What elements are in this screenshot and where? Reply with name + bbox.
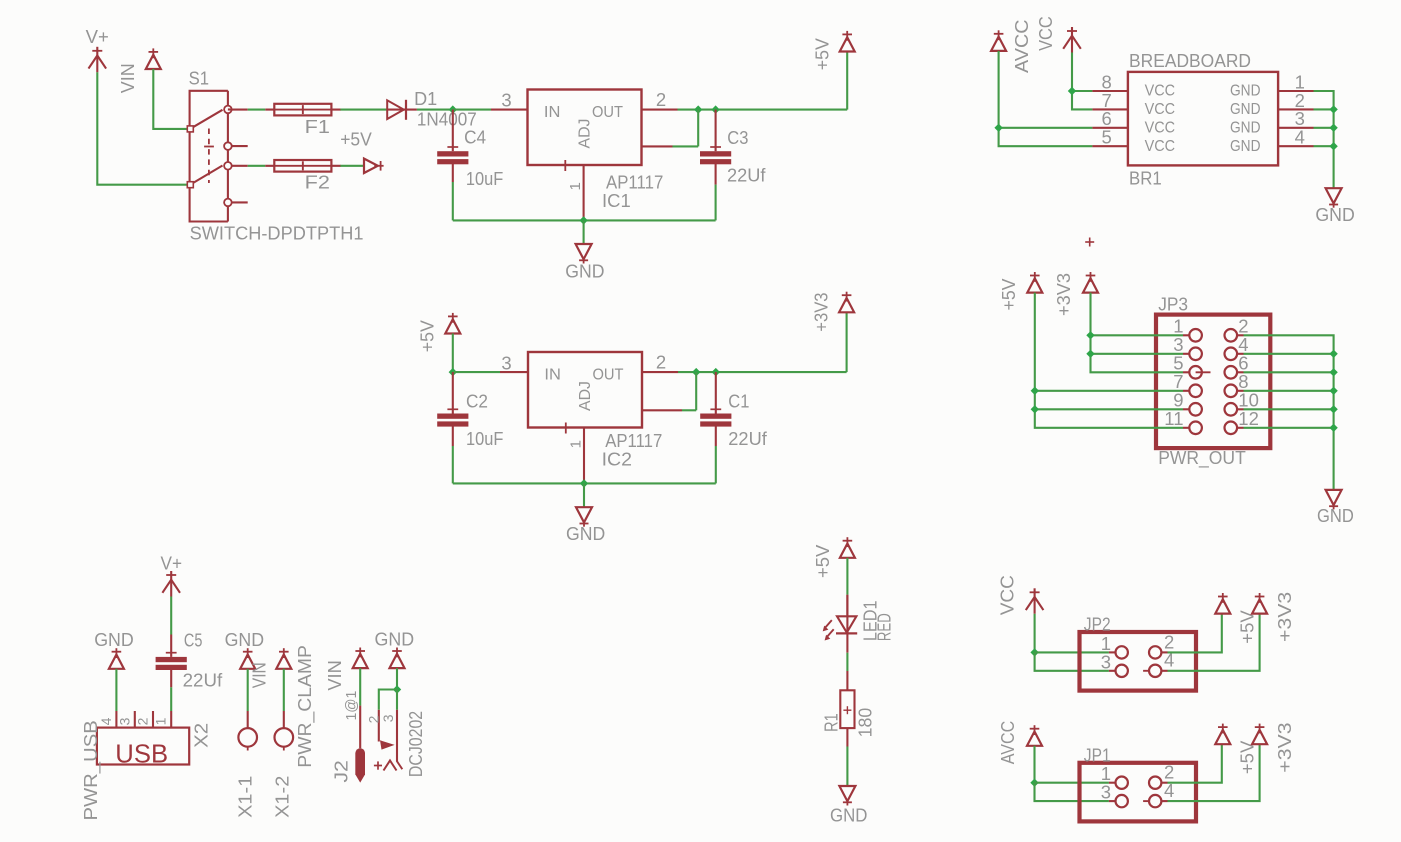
wire VCC to BR1 pins 8,7 — [1072, 53, 1092, 92]
svg-text:D1: D1 — [414, 89, 437, 109]
supply V+ arrow (USB) — [166, 574, 176, 576]
supply VIN arrow — [146, 55, 161, 69]
supply +5V arrow (switch output) — [364, 159, 378, 173]
BR1 pin 6 stub — [1092, 127, 1128, 129]
svg-text:11: 11 — [1164, 408, 1183, 429]
wire LED1 to R1 — [846, 634, 848, 653]
node junction JP3 gnd — [1329, 350, 1337, 358]
node junction JP3 gnd — [1329, 405, 1337, 413]
test pad X1-2 — [275, 728, 294, 747]
connector J2 center pin — [355, 748, 365, 782]
svg-text:ADJ: ADJ — [577, 119, 594, 149]
ground symbol LED/R1 — [839, 786, 855, 801]
svg-text:C4: C4 — [464, 127, 486, 147]
svg-text:VCC: VCC — [1145, 101, 1176, 118]
svg-text:DCJ0202: DCJ0202 — [406, 711, 426, 777]
svg-text:RED: RED — [875, 613, 895, 641]
svg-text:V+: V+ — [161, 554, 183, 574]
svg-text:1: 1 — [153, 717, 169, 725]
J2 sleeve contact arrow — [380, 740, 395, 749]
wire switch to fuse F2 — [232, 165, 248, 167]
supply +5V arrow (top right of IC1) — [840, 37, 855, 51]
svg-text:3: 3 — [380, 714, 396, 722]
capacitor C5 — [170, 635, 172, 657]
supply +5V arrow (JP3) — [1027, 278, 1042, 292]
connector X2 USB body — [97, 728, 189, 765]
svg-text:12: 12 — [1238, 408, 1259, 429]
IC1 OUT pin stub — [642, 109, 678, 111]
ground symbol IC1 — [576, 244, 592, 259]
node junction JP3 gnd — [1329, 387, 1337, 395]
svg-text:F2: F2 — [305, 172, 330, 192]
node junction ADJ loop IC2 — [692, 368, 700, 376]
svg-text:2: 2 — [135, 717, 151, 725]
svg-text:10uF: 10uF — [466, 429, 503, 449]
svg-text:BREADBOARD: BREADBOARD — [1129, 51, 1251, 71]
svg-text:GND: GND — [566, 524, 605, 544]
supply V+ arrow — [92, 50, 102, 52]
IC1 pin 1 stub to ground rail — [583, 165, 585, 220]
supply +5V arrow (IC2) — [445, 319, 460, 333]
svg-text:F1: F1 — [305, 117, 330, 137]
svg-text:3: 3 — [1101, 782, 1111, 803]
wire F1 to diode D1 — [340, 109, 387, 111]
wire F2 to +5V — [340, 165, 364, 167]
svg-text:3: 3 — [116, 717, 132, 725]
wire VCC to JP2 pins 1,3 — [1034, 614, 1036, 653]
JP3 pin 6 — [1237, 371, 1243, 373]
svg-text:OUT: OUT — [593, 366, 625, 383]
node junction C1 — [712, 368, 720, 376]
supply GND arrow (J2 pin1 side) — [353, 654, 368, 668]
IC1 bottom tick — [564, 160, 566, 171]
JP2 pin 1 — [1109, 651, 1116, 653]
svg-text:PWR_CLAMP: PWR_CLAMP — [295, 645, 316, 768]
wire IC1 OUT to +5V — [678, 109, 848, 111]
svg-text:AVCC: AVCC — [1012, 19, 1032, 73]
wire V+ to switch pole 2 — [97, 72, 190, 184]
supply GND arrow (X1-1) — [240, 655, 255, 669]
svg-text:2: 2 — [656, 351, 666, 372]
svg-text:V+: V+ — [86, 27, 109, 47]
svg-text:+3V3: +3V3 — [812, 293, 832, 332]
capacitor C2 — [452, 372, 454, 413]
BR1 pin 3 stub — [1278, 127, 1313, 129]
svg-text:GND: GND — [1317, 506, 1354, 526]
supply +3V3 arrow (JP1) — [1252, 730, 1267, 744]
resistor R1 — [840, 690, 854, 728]
svg-text:VIN: VIN — [325, 660, 345, 691]
svg-text:10uF: 10uF — [466, 169, 503, 189]
connector BR1 body — [1128, 72, 1278, 165]
svg-text:OUT: OUT — [592, 104, 624, 121]
node junction C3 — [711, 105, 719, 113]
BR1 pin 7 stub — [1092, 108, 1128, 110]
node junction BR1 gnd 3 — [1329, 124, 1337, 132]
wire V+ to C5 — [170, 597, 172, 635]
JP1 pin 3 — [1109, 800, 1116, 802]
JP3 pin 7 — [1183, 390, 1189, 392]
wire +5V to IC2 IN — [452, 334, 454, 373]
connector JP3 body — [1156, 315, 1270, 449]
fuse F1 — [265, 109, 341, 111]
node junction JP3 pin7 — [1031, 387, 1039, 395]
JP3 pin 4 — [1237, 353, 1243, 355]
JP2 pin 2 — [1149, 646, 1161, 658]
supply +5V arrow (JP1) — [1215, 730, 1230, 744]
IC2 bottom tick — [565, 423, 567, 434]
svg-text:VCC: VCC — [1145, 138, 1176, 155]
svg-text:GND: GND — [1315, 205, 1354, 225]
J2 switch contact chevron — [384, 761, 397, 771]
X2 pin 2 stub — [152, 711, 154, 728]
stray plus mark — [1085, 241, 1094, 243]
IC1 ADJ pin stub and wire — [642, 145, 673, 147]
svg-text:VCC: VCC — [1145, 119, 1176, 136]
svg-text:22Uf: 22Uf — [727, 166, 767, 186]
svg-text:22Uf: 22Uf — [728, 429, 768, 449]
svg-text:IN: IN — [544, 104, 561, 121]
svg-text:+5V: +5V — [813, 38, 833, 70]
svg-text:C2: C2 — [466, 391, 488, 411]
svg-text:2: 2 — [656, 89, 666, 110]
svg-text:ADJ: ADJ — [577, 381, 594, 411]
wire BR1 pins 1-4 to GND — [1314, 91, 1334, 188]
JP3 pin 8 — [1237, 390, 1243, 392]
wire AVCC to JP1 pins 1,3 — [1033, 746, 1035, 783]
supply +3V3 arrow (JP2) — [1252, 599, 1267, 613]
node junction JP1 — [1030, 779, 1038, 787]
svg-text:+5V: +5V — [1237, 741, 1257, 775]
svg-text:C1: C1 — [728, 391, 749, 411]
supply VCC arrow (JP2) — [1030, 591, 1040, 593]
JP3 pin 9 — [1183, 408, 1189, 410]
svg-text:C3: C3 — [727, 128, 748, 148]
wire switch to fuse F1 — [228, 108, 232, 110]
svg-text:X2: X2 — [191, 723, 211, 748]
node junction C2 — [449, 368, 457, 376]
svg-text:AP1117: AP1117 — [605, 431, 662, 451]
svg-text:AP1117: AP1117 — [606, 173, 663, 193]
svg-text:+5V: +5V — [999, 279, 1019, 311]
svg-text:+3V3: +3V3 — [1054, 273, 1074, 316]
capacitor C3 — [715, 110, 717, 152]
wire +5V to LED1 — [846, 558, 848, 595]
svg-text:3: 3 — [1101, 651, 1111, 672]
connector JP2 body — [1080, 632, 1197, 691]
svg-text:VCC: VCC — [1036, 16, 1056, 51]
JP2 pin 3 — [1109, 670, 1116, 672]
IC2 ADJ pin stub and wire — [642, 409, 682, 411]
svg-text:VCC: VCC — [997, 575, 1017, 615]
svg-text:+3V3: +3V3 — [1275, 592, 1295, 642]
BR1 pin 1 stub — [1278, 90, 1313, 92]
BR1 pin 2 stub — [1278, 108, 1313, 110]
svg-text:IN: IN — [544, 366, 561, 383]
wire IC2 OUT to +3V3 — [678, 371, 847, 373]
wire JP1 pin4 to +3V3 — [1168, 744, 1260, 801]
svg-text:GND: GND — [225, 630, 265, 650]
test pad X1-1 — [238, 728, 257, 747]
node junction JP3 gnd — [1329, 424, 1337, 432]
wire JP3 right pins to GND — [1244, 335, 1334, 490]
supply VCC arrow — [1067, 30, 1077, 32]
supply +3V3 arrow (JP3) — [1083, 278, 1098, 292]
JP3 pin5 extra stub — [1196, 371, 1211, 373]
BR1 pin 8 stub — [1092, 90, 1128, 92]
node junction ground IC1 — [579, 216, 587, 224]
wire JP1 pin2 to +5V — [1168, 744, 1222, 783]
svg-text:SWITCH-DPDTPTH1: SWITCH-DPDTPTH1 — [190, 224, 364, 244]
svg-text:USB: USB — [115, 739, 168, 769]
svg-text:VIN: VIN — [118, 63, 138, 93]
svg-text:AVCC: AVCC — [998, 721, 1018, 765]
node junction D1/C4 — [449, 105, 457, 113]
svg-text:R1: R1 — [821, 713, 841, 732]
X2 pin 3 stub — [134, 711, 136, 728]
node junction JP3 pin9 — [1031, 405, 1039, 413]
wire GND to USB pin4 — [115, 669, 117, 711]
svg-text:VIN: VIN — [249, 662, 269, 688]
IC2 pin 1 stub — [583, 428, 585, 484]
JP3 pin 1 — [1183, 334, 1189, 336]
svg-text:X1-2: X1-2 — [272, 776, 292, 818]
node junction JP3 pin3 — [1086, 350, 1094, 358]
svg-text:1@1: 1@1 — [344, 691, 360, 721]
svg-text:+5V: +5V — [417, 320, 437, 352]
ground symbol JP3 — [1326, 490, 1342, 505]
JP3 pin 11 — [1183, 427, 1189, 429]
wire to J2 pin1 — [359, 668, 361, 706]
supply +5V arrow (JP2) — [1215, 599, 1230, 613]
svg-text:JP3: JP3 — [1158, 294, 1188, 314]
svg-text:+3V3: +3V3 — [1275, 722, 1295, 772]
wire ground rail IC1 — [453, 219, 716, 221]
diode D1 — [387, 100, 404, 119]
wire ground rail IC2 — [453, 482, 716, 484]
switch S1 body — [190, 91, 228, 222]
node junction BR1 gnd 2 — [1329, 105, 1337, 113]
JP3 pin 12 — [1237, 427, 1243, 429]
svg-text:GND: GND — [1230, 83, 1261, 100]
svg-text:X1-1: X1-1 — [236, 776, 256, 818]
regulator IC2 body — [528, 352, 642, 428]
ground symbol IC2 — [576, 507, 592, 522]
JP1 pin 2 — [1149, 777, 1161, 789]
svg-text:VCC: VCC — [1145, 83, 1176, 100]
node junction ground IC2 — [580, 479, 588, 487]
svg-text:1: 1 — [567, 182, 584, 190]
svg-text:PWR_USB: PWR_USB — [81, 720, 102, 820]
node junction AVCC — [994, 124, 1002, 132]
svg-text:IC2: IC2 — [602, 450, 632, 470]
connector JP1 body — [1080, 763, 1197, 822]
JP2 pin 4 — [1143, 670, 1149, 672]
svg-text:BR1: BR1 — [1129, 169, 1162, 189]
node junction ADJ loop — [694, 105, 702, 113]
supply AVCC arrow — [991, 37, 1006, 51]
wire R1 to GND — [846, 728, 848, 746]
svg-text:3: 3 — [501, 352, 511, 373]
wire D1 to IC1 IN — [417, 109, 453, 111]
svg-text:GND: GND — [1230, 101, 1261, 118]
capacitor C4 — [452, 110, 454, 152]
ground symbol BR1 — [1326, 188, 1342, 203]
wire AVCC to BR1 pins 6,5 — [999, 51, 1093, 128]
supply +5V arrow (LED) — [840, 544, 855, 558]
node junction J2 — [393, 685, 401, 693]
node junction JP3 gnd — [1329, 368, 1337, 376]
svg-text:GND: GND — [94, 630, 134, 650]
wire J2 ground net — [396, 668, 398, 689]
wire VIN to switch pole 1 — [153, 69, 190, 129]
JP3 pin 2 — [1237, 334, 1243, 336]
JP1 pin 1 — [1109, 782, 1116, 784]
svg-text:+5V: +5V — [1237, 610, 1257, 644]
supply GND arrow (J2 gnd) — [390, 654, 405, 668]
svg-text:IC1: IC1 — [602, 191, 631, 211]
wire GND to X1-2 — [283, 669, 285, 711]
BR1 pin 5 stub — [1092, 145, 1128, 147]
supply GND arrow (X1-2) — [276, 655, 291, 669]
svg-text:180: 180 — [856, 708, 876, 738]
node junction BR1 gnd 4 — [1329, 142, 1337, 150]
svg-text:C5: C5 — [184, 631, 203, 651]
JP3 pin 5 — [1183, 371, 1189, 373]
op-amp regulator IC1 body — [528, 90, 642, 166]
svg-text:JP2: JP2 — [1084, 615, 1111, 635]
J2 plus mark — [374, 765, 382, 767]
LED LED1 — [837, 616, 856, 632]
capacitor C1 — [715, 372, 717, 413]
supply GND arrow (USB pin4) — [109, 655, 124, 669]
node junction VCC — [1068, 87, 1076, 95]
svg-text:GND: GND — [1230, 138, 1261, 155]
supply +3V3 arrow (IC2) — [839, 298, 854, 312]
svg-text:J2: J2 — [331, 760, 351, 783]
node junction JP2 — [1030, 648, 1038, 656]
svg-text:4: 4 — [1295, 127, 1305, 148]
JP3 pin 10 — [1237, 408, 1243, 410]
IC2 OUT pin stub — [642, 371, 678, 373]
svg-text:+5V: +5V — [813, 545, 833, 578]
svg-text:GND: GND — [1230, 119, 1261, 136]
wire JP2 pin4 to +3V3 — [1168, 614, 1260, 671]
fuse F2 — [265, 165, 341, 167]
wire GND to X1-1 — [247, 669, 249, 711]
wire +3V3 to JP3 pins 1,3,5 — [1091, 293, 1184, 373]
svg-text:22Uf: 22Uf — [183, 670, 224, 690]
wire +5V to JP3 pins 7,9,11 — [1035, 293, 1183, 428]
JP1 pin 4 — [1143, 800, 1149, 802]
svg-text:GND: GND — [565, 261, 604, 281]
svg-text:3: 3 — [501, 89, 511, 110]
svg-text:GND: GND — [375, 630, 415, 650]
node junction JP3 pin1 — [1086, 331, 1094, 339]
svg-text:S1: S1 — [189, 69, 209, 89]
svg-text:+5V: +5V — [340, 129, 372, 149]
svg-text:5: 5 — [1101, 127, 1111, 148]
svg-text:1: 1 — [567, 440, 584, 448]
svg-text:GND: GND — [830, 806, 867, 826]
JP3 pin 3 — [1183, 353, 1189, 355]
supply AVCC arrow (JP1) — [1027, 732, 1042, 746]
BR1 pin 4 stub — [1278, 145, 1313, 147]
wire JP2 pin2 to +5V — [1168, 614, 1222, 653]
svg-text:PWR_OUT: PWR_OUT — [1158, 448, 1246, 469]
